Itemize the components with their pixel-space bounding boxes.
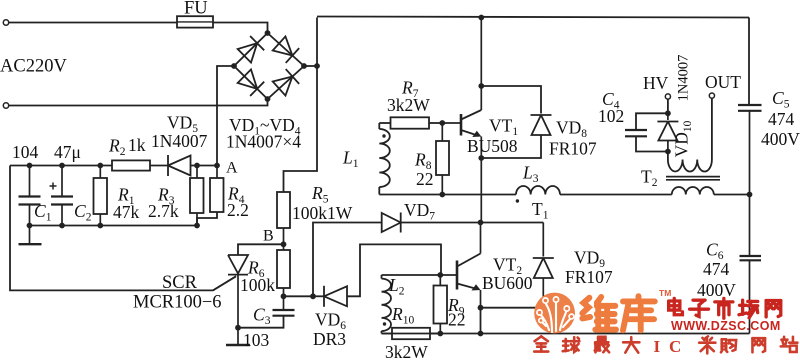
wire bridge left node down to node A [217,66,234,166]
terminal OUT [709,93,714,98]
node top rail tap [478,15,484,21]
svg-text:FR107: FR107 [549,139,597,159]
polarity dot L2 [383,322,386,325]
node VD10 bottom [665,149,671,155]
svg-text:104: 104 [12,142,39,162]
svg-text:SCR: SCR [162,273,198,293]
wire VD6 to VT2 base node [347,244,441,296]
transformer T2 secondary winding [667,152,669,160]
svg-text:3k2W: 3k2W [387,95,430,115]
svg-text:22: 22 [416,169,434,189]
diode VD5 1N4007 pointing left [168,156,191,176]
node R8 bottom [439,192,445,198]
svg-text:FR107: FR107 [565,267,613,287]
svg-text:47μ: 47μ [54,142,81,162]
svg-text:1N4007: 1N4007 [676,55,692,102]
watermark 电子市场网 [669,298,781,318]
diode VD4 (bottom-right edge, pointing to right node) [273,76,293,95]
transformer T2 primary winding [672,187,714,195]
svg-text:AC220V: AC220V [0,57,67,77]
capacitor C1 104 [29,166,31,197]
capacitor C4 102 [636,113,668,130]
resistor R6 100k [283,244,285,250]
wire L3 to T2 primary [560,194,672,196]
wire riser up to VD7 line [313,223,382,297]
svg-text:DR3: DR3 [313,329,346,349]
node VD7/VT2 collector [478,220,484,226]
inductor L3 (T1 primary) [516,186,560,195]
capacitor C3 103 [283,296,285,310]
transistor VT2 BU600 [456,261,459,290]
capacitor C2 47u electrolytic [61,166,63,197]
node VT2 base / R9 top [437,272,443,278]
node DC+ riser junction [314,63,320,69]
svg-text:MCR100−6: MCR100−6 [133,293,222,313]
wire L1 bottom / R8 bottom to L3 [379,194,516,196]
node VD10 top [665,110,671,116]
wire VT1 collector to top rail [480,17,482,111]
capacitor C5 474 400V [748,18,750,106]
node bridge bottom [265,96,271,102]
node A dot 1 [194,163,200,169]
node bridge left [231,63,237,69]
transistor VT1 BU508 [460,114,463,136]
watermark logo circle [534,293,575,334]
resistor R7 3k2W [379,122,390,124]
terminal HV [665,94,670,99]
svg-text:A: A [226,160,238,177]
node C1 bottom [27,223,33,229]
svg-text:2.7k: 2.7k [148,201,179,221]
svg-text:FU: FU [184,0,208,19]
wire VD5 to node A [191,165,218,167]
node R6 bottom / C3 top [281,293,287,299]
resistor R3 2.7k [196,166,198,179]
diode VD3 (bottom-left edge, pointing to bottom node) [238,69,257,88]
wire T2 primary to right rail [714,194,750,196]
node R7/R8/VT1 base [439,120,445,126]
wire VD7 cathode to collector node [401,222,544,224]
node R9 bottom [437,331,443,337]
transformer T2 core [666,176,720,178]
svg-text:100k1W: 100k1W [292,203,353,223]
wire emitter to VD9 [481,307,544,309]
polarity dot L3 [516,199,519,202]
svg-text:BU508: BU508 [467,136,518,156]
wire base node to VT1 [442,122,461,124]
diode VD6 DR3 pointing left [313,295,324,297]
bridge rectifier VD1~VD4 frame [234,33,304,99]
resistor R9 22 [439,275,441,286]
wire emitter down to bottom rail [480,308,482,334]
node VD8 bottom / emitter [478,155,484,161]
resistor R2 1k [112,160,150,170]
node VD7 riser [310,293,316,299]
node A dot 2 [214,163,220,169]
resistor R10 3k2W [382,333,393,335]
svg-text:400V: 400V [761,129,800,149]
terminal AC input bottom [3,103,8,108]
terminal AC input top [3,20,8,25]
wire fuse to bridge top node [213,23,268,34]
node C2 bottom [59,223,65,229]
watermark slogan 全球最大IC采购网站 [534,336,797,353]
wire VD8 bottom to emitter line [481,135,541,158]
wire left drop to SCR gate wire [10,166,236,291]
diode VD8 FR107 pointing up [532,115,551,135]
node bridge right [301,63,307,69]
diode VD2 (top-right edge, pointing to right node) [273,36,293,55]
wire AC line 1 (top) to fuse [9,22,177,24]
node B [281,241,287,247]
svg-text:OUT: OUT [705,72,741,92]
resistor R4 2.2 [216,166,218,179]
svg-text:2.2: 2.2 [227,200,249,220]
svg-text:I: I [654,337,661,356]
svg-text:474: 474 [703,259,730,279]
node R1 top [97,163,103,169]
diode VD10 1N4007 pointing up [667,113,669,120]
wire R2 to VD5 [150,165,168,167]
svg-text:C: C [669,337,681,356]
SCR MCR100-6 thyristor [228,255,248,274]
wire R6 bottom to VD7 riser [284,295,314,297]
watermark brand 维库 [582,296,654,330]
wire node-A rail y=165.5 left section [10,165,112,167]
wire secondary to OUT terminal [711,98,713,159]
wire DC+ riser up to top rail [316,18,318,67]
svg-text:3k2W: 3k2W [385,342,428,359]
svg-text:47k: 47k [113,202,140,222]
svg-text:BU600: BU600 [482,273,533,293]
polarity dot L1 [382,134,385,137]
inductor L1 [378,123,380,129]
svg-text:1N4007×4: 1N4007×4 [226,132,301,152]
resistor R8 22 [441,123,443,141]
node VT2 emitter [478,305,484,311]
wire bottom rail [382,333,750,335]
wire to VD8 top [481,86,541,114]
wire AC line 2 (bottom) to bridge bottom node [9,99,268,106]
node VD8 top tap [478,83,484,89]
wire SCR cathode to ground [237,328,239,344]
resistor R1 47k [99,166,101,179]
resistor R5 100k1W [277,192,290,228]
svg-text:100k: 100k [240,275,275,295]
fuse FU [177,16,213,27]
ground symbol left [29,226,31,244]
svg-text:1N4007: 1N4007 [151,131,208,151]
diode VD7 pointing right [382,213,401,232]
svg-text:102: 102 [598,106,624,126]
node emitter/bottom rail [478,331,484,337]
ground symbol SCR [226,344,250,346]
wire ground rail y=225.5 [30,225,198,227]
wire DC+ riser down to R5 [284,66,318,192]
node C2 top [59,163,65,169]
svg-text:1k: 1k [128,135,146,155]
wire bridge right node to DC+ riser [304,65,317,67]
SCR gate lead [213,276,236,290]
capacitor C6 474 400V [749,195,751,257]
wire HV to VD10 top [667,99,669,113]
wire VT2 base line [382,274,458,276]
wire node B to SCR anode [238,244,284,255]
node R1 bottom [97,223,103,229]
svg-text:HV: HV [643,73,669,93]
svg-text:474: 474 [768,109,795,129]
svg-text:B: B [263,228,274,245]
svg-text:400V: 400V [697,280,736,300]
svg-text:22: 22 [448,310,466,330]
diode VD9 FR107 pointing up [542,223,544,257]
node bridge top [265,30,271,36]
node C1 top [27,163,33,169]
svg-text:WWW.DZSC.COM: WWW.DZSC.COM [671,319,781,333]
plus sign of C2 [50,185,57,187]
inductor L2 [381,275,383,279]
svg-text:TM: TM [659,288,671,298]
node SCR cathode / C3 junction [235,325,241,331]
diode VD1 (top-left edge, pointing to top node) [238,43,257,62]
node right rail junction [747,192,753,198]
wire top DC rail [317,17,749,18]
node rail end [194,223,200,229]
wire VT1 emitter down to VT2 collector [480,137,482,223]
svg-text:103: 103 [243,330,270,350]
